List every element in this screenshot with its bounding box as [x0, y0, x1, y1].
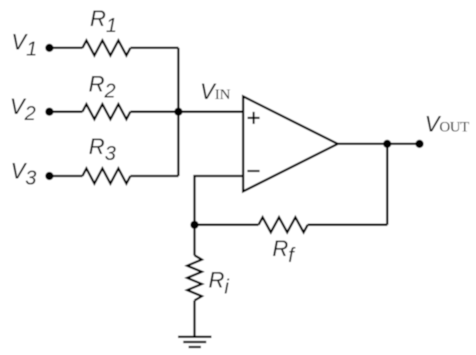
resistor R3	[82, 169, 130, 184]
resistor Ri	[187, 255, 202, 300]
resistor R1	[82, 40, 130, 55]
op-amp - symbol	[247, 170, 259, 172]
wire node A to Ri	[193, 225, 195, 256]
terminal dot V1	[45, 44, 53, 52]
feedback wire vertical	[386, 144, 388, 225]
wire R1 to bus	[130, 47, 178, 49]
wire node A to Rf	[195, 224, 259, 226]
wire R3 to bus	[130, 175, 178, 177]
node VIN junction dot	[174, 108, 182, 116]
ground	[178, 337, 212, 347]
terminal dot VOUT	[415, 140, 423, 148]
op-amp U1 triangle	[243, 96, 338, 191]
bus wire vertical	[177, 48, 179, 176]
wire Rf to feedback riser	[308, 224, 388, 226]
output junction dot	[383, 140, 391, 148]
op-amp + symbol	[248, 112, 260, 124]
wire V1 to R1	[49, 47, 82, 49]
wire VIN to op-amp + input	[178, 111, 243, 113]
resistor Rf	[259, 217, 308, 232]
wire Ri to ground	[193, 301, 195, 337]
wire V3 to R3	[49, 175, 82, 177]
node A junction dot	[190, 221, 198, 229]
wire R2 to bus	[130, 111, 178, 113]
wire op-amp - input to node A	[195, 176, 244, 225]
wire V2 to R2	[49, 111, 82, 113]
resistor R2	[82, 104, 130, 119]
terminal dot V2	[45, 108, 53, 116]
output wire	[338, 143, 420, 145]
terminal dot V3	[45, 172, 53, 180]
